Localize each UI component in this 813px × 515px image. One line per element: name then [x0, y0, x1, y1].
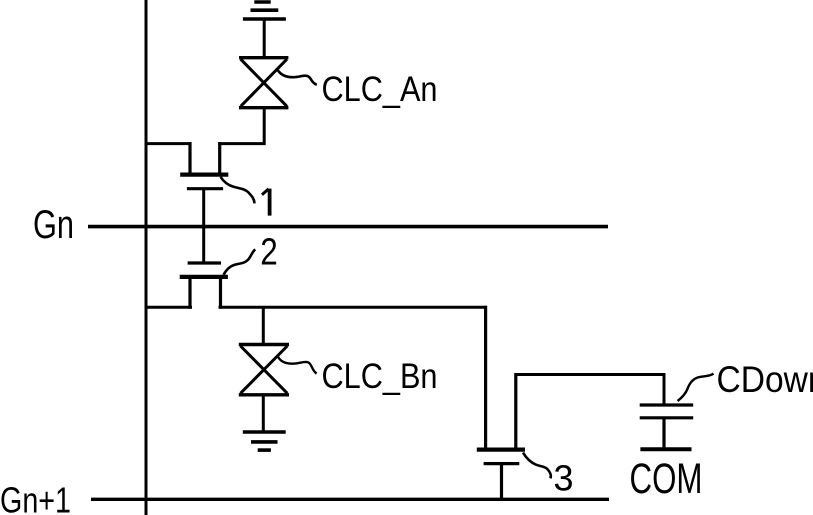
leader 2 [224, 249, 256, 274]
ground (below CLC_Bn) [243, 432, 286, 450]
wire: CDown to COM plate [662, 418, 665, 448]
svg-text:3: 3 [554, 458, 574, 499]
wire: transistor 2 drain to node B (long horizontal) [219, 306, 488, 309]
capacitor CDown [640, 405, 694, 418]
svg-text:COM: COM [630, 455, 703, 503]
wire: node B to CLC_Bn [262, 307, 265, 343]
transistor Q3 (TFT, mirrored: channel above gate) [477, 373, 525, 499]
wire: transistor 2 source to data line [145, 306, 193, 309]
leader CLC_Bn [278, 357, 317, 374]
svg-text:CLC_An: CLC_An [322, 70, 438, 109]
wire: CLC_An to transistor 1 drain [218, 106, 264, 144]
COM terminal plate [640, 447, 691, 451]
label 1 [262, 189, 270, 216]
wire: CLC_Bn to ground [262, 395, 265, 432]
wire: data line to transistor 1 source [145, 142, 192, 145]
svg-text:2: 2 [260, 230, 278, 272]
wire: node B down to transistor 3 source [484, 306, 487, 450]
wire: Gn+1 gate line [91, 498, 609, 501]
leader CDown [678, 374, 714, 401]
svg-text:CLC_Bn: CLC_Bn [322, 357, 438, 396]
capacitor CLC_An (liquid crystal bowtie) [239, 58, 288, 108]
leader CLC_An [277, 69, 317, 85]
svg-text:Gn: Gn [33, 203, 74, 247]
capacitor CLC_Bn (liquid crystal bowtie) [239, 345, 289, 395]
transistor Q2 (TFT, gate above channel) [180, 263, 228, 309]
wire: Gn gate line [88, 225, 608, 229]
leader 1 [221, 177, 255, 204]
transistor Q1 (TFT, mirrored: channel above gate) [180, 142, 228, 189]
svg-text:CDown: CDown [717, 359, 813, 400]
ground (top, above CLC_An) [243, 2, 286, 19]
wire: data line (vertical bus) [145, 0, 148, 515]
wire: top ground to CLC_An [263, 19, 266, 58]
wire: gate lead T1-Gn-T2 [202, 189, 205, 263]
wire: transistor 3 drain to CDown [516, 375, 664, 405]
leader 3 [523, 453, 551, 479]
svg-text:Gn+1: Gn+1 [0, 480, 71, 515]
